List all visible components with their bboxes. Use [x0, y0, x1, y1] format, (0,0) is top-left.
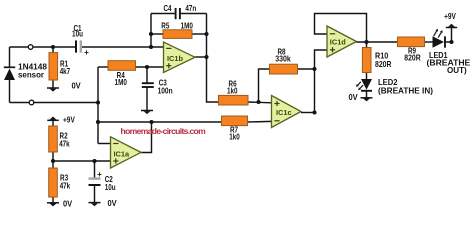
wire R1 bottom to ground — [52, 80, 54, 88]
wire IC1b output — [195, 56, 207, 58]
resistor R10 820R — [362, 48, 391, 73]
svg-text:47k: 47k — [59, 139, 70, 148]
wire IC1d feedback loop — [315, 14, 367, 43]
LED1 (BREATHE OUT) — [427, 29, 471, 75]
wire +9V stub above R2 — [52, 120, 54, 126]
svg-text:+: + — [97, 170, 102, 179]
node terminal circle bottom-left — [29, 100, 34, 105]
svg-text:4k7: 4k7 — [60, 67, 71, 76]
ground 0V under LED2 — [349, 93, 373, 102]
node IC1c output junction — [312, 110, 316, 114]
wire C4 left — [151, 13, 175, 15]
wire R9 right to LED1 — [425, 41, 433, 43]
node R5 left junction — [149, 32, 153, 36]
svg-text:47k: 47k — [60, 182, 71, 191]
ground 0V under R3 — [47, 199, 73, 208]
wire bottom-left horizontal — [10, 102, 99, 104]
svg-text:820R: 820R — [375, 60, 392, 69]
power +9V at LED1 — [444, 12, 457, 27]
wire left vertical below diode — [9, 80, 11, 103]
svg-text:1k0: 1k0 — [227, 87, 238, 96]
op-amp IC1a — [111, 137, 142, 168]
resistor R3 47k — [49, 168, 71, 197]
wire left vertical above diode — [9, 47, 11, 67]
wire R5 right — [192, 33, 207, 35]
svg-text:0V: 0V — [63, 199, 73, 208]
wire IC1b feedback left vertical — [150, 14, 152, 48]
node C2 junction — [92, 159, 96, 163]
svg-text:1k0: 1k0 — [229, 132, 240, 141]
wire C2 bottom to ground — [94, 186, 96, 203]
svg-text:10u: 10u — [105, 183, 116, 192]
wire R5 left — [151, 33, 163, 35]
svg-text:330k: 330k — [275, 55, 291, 64]
svg-text:100n: 100n — [158, 87, 173, 96]
svg-text:+9V: +9V — [63, 116, 75, 125]
node R5 right junction — [204, 32, 208, 36]
svg-text:C4: C4 — [163, 4, 171, 13]
resistor R9 820R — [398, 37, 425, 63]
svg-text:sensor: sensor — [18, 71, 45, 80]
node IC1a output junction — [149, 120, 153, 124]
wire R1 top stub — [52, 47, 54, 53]
resistor R4 1M0 — [108, 61, 136, 87]
resistor R1 4k7 — [49, 53, 71, 80]
wire R4 left — [98, 66, 108, 68]
op-amp IC1b — [164, 42, 196, 73]
ground under C3 — [141, 111, 153, 115]
node R8/IC1d+ junction — [312, 67, 316, 71]
wire IC1b output vertical down to R6 — [207, 14, 219, 103]
svg-text:IC1d: IC1d — [330, 37, 347, 46]
wire IC1d non-inverting input vertical — [315, 50, 328, 113]
wire IC1c output — [301, 112, 315, 114]
wire top-left horizontal to C1 — [10, 46, 76, 48]
node R2/R3 junction — [51, 159, 55, 163]
wire R10 bottom to LED2 — [366, 73, 368, 80]
node IC1b output junction — [204, 55, 208, 59]
svg-text:0V: 0V — [72, 82, 82, 91]
svg-text:10u: 10u — [72, 30, 83, 39]
wire R8 left vertical to R6 node — [259, 69, 270, 102]
wire vertical node at x=98 (R4 left / sensor / IC1a inv) — [97, 67, 99, 144]
wire R7 right to IC1c inverting input — [248, 120, 272, 123]
resistor R2 47k — [49, 126, 70, 152]
wire R10 top — [366, 42, 368, 48]
svg-text:0V: 0V — [108, 199, 118, 208]
op-amp IC1d — [327, 26, 357, 57]
wire C4 right to output vertical — [181, 13, 207, 15]
svg-text:IC1a: IC1a — [114, 150, 131, 159]
LED2 (BREATHE IN) — [356, 78, 433, 96]
resistor R5 1M0 — [161, 21, 193, 38]
node C1/R1 junction — [51, 45, 55, 49]
wire LED2 cathode to ground — [366, 92, 368, 98]
capacitor C2 10u — [89, 170, 116, 192]
wire IC1d output to R9 — [356, 41, 398, 43]
svg-text:+9V: +9V — [444, 12, 456, 21]
svg-text:OUT): OUT) — [447, 66, 467, 75]
node R6/R8/IC1c+ junction — [256, 100, 260, 104]
wire R3 bottom to ground — [52, 197, 54, 203]
wire R8 right — [298, 68, 315, 70]
resistor R6 1k0 — [219, 80, 249, 105]
resistor R8 330k — [270, 48, 298, 75]
op-amp IC1c — [272, 96, 302, 128]
svg-text:IC1c: IC1c — [276, 108, 292, 117]
ground 0V under R1 — [47, 82, 81, 92]
node R4/C3/IC1b+ junction — [145, 65, 149, 69]
wire R4 right to IC1b non-inverting input — [136, 66, 164, 68]
ground 0V under C2 — [89, 199, 118, 208]
wire y=122 net IC1a output to R7 — [98, 121, 222, 123]
resistor R7 1k0 — [222, 116, 248, 141]
svg-text:1M0: 1M0 — [115, 78, 128, 87]
svg-text:1M0: 1M0 — [181, 21, 194, 30]
node x98/y122 junction — [96, 120, 100, 124]
node sensor/IC1a- junction — [96, 100, 100, 104]
svg-text:47n: 47n — [185, 4, 196, 13]
wire R2 bottom to R3 top — [52, 152, 54, 168]
node IC1d output/R10 junction — [364, 40, 368, 44]
svg-text:(BREATHE IN): (BREATHE IN) — [378, 87, 433, 96]
wire C1 right plate to IC1b inverting input — [82, 46, 164, 48]
node LED1 cathode junction — [449, 40, 453, 44]
wire R2/R3 junction to IC1a non-inverting input — [53, 160, 111, 162]
svg-text:+: + — [84, 48, 89, 57]
power +9V at R2 — [47, 116, 75, 125]
svg-text:R5: R5 — [161, 21, 169, 30]
wire IC1a inverting input — [98, 143, 111, 145]
diode D1 1N4148 sensor — [4, 63, 48, 80]
svg-text:IC1b: IC1b — [167, 54, 184, 63]
wire C3 top — [146, 67, 148, 83]
wire R6 right to IC1c non-inverting input — [248, 101, 272, 104]
node terminal circle top-left — [28, 45, 33, 50]
wire C2 top — [94, 161, 96, 178]
svg-text:0V: 0V — [349, 93, 359, 102]
wire IC1a output — [141, 122, 152, 153]
capacitor C4 47n — [163, 4, 196, 19]
svg-text:homemade-circuits.com: homemade-circuits.com — [121, 126, 207, 136]
capacitor C3 100n — [142, 79, 173, 96]
wire LED1 cathode to +9V vertical — [446, 28, 452, 43]
wire C3 bottom to ground — [146, 88, 148, 111]
node C1/IC1b- junction — [149, 45, 153, 49]
capacitor C1 10u — [72, 24, 89, 57]
svg-text:820R: 820R — [404, 54, 421, 63]
